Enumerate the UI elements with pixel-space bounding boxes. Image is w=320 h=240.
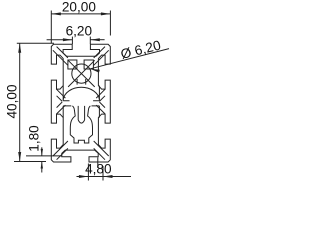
- web bottom-left corner: [53, 141, 68, 160]
- dim 40,00 line: [19, 43, 21, 161]
- web mid-left lower: [57, 102, 66, 114]
- web mid-right lower: [96, 102, 105, 114]
- web top-right corner: [94, 47, 109, 66]
- central channel lines: [78, 106, 84, 123]
- leader line for hole diameter: [90, 49, 169, 69]
- dim 1,80 extension line upper: [26, 155, 62, 157]
- web mid-right upper: [96, 89, 105, 101]
- mid wall lines: [63, 101, 99, 106]
- svg-text:4,80: 4,80: [85, 161, 112, 176]
- cavity floor connector lines: [63, 86, 99, 118]
- dim 40,00 extension line bottom: [14, 161, 46, 163]
- dim 1,80 arrow upper: [41, 149, 43, 156]
- dim 20,00 arrow left: [51, 12, 61, 15]
- dim 4,80 extension stub: [97, 157, 99, 168]
- core hole circle (top module): [72, 64, 91, 83]
- dim 20,00 line: [51, 13, 110, 15]
- groove notch left of hole: [68, 60, 77, 69]
- dim 20,00 extension line left: [50, 11, 52, 44]
- dim 1,80 arrow lower: [41, 162, 43, 169]
- web mid-left upper: [57, 89, 66, 101]
- dim 6,20 arrow right: [90, 38, 100, 41]
- dim 4,80 extension line left: [87, 164, 89, 181]
- dim 1,80 line lower: [41, 162, 43, 173]
- dim 4,80 arrow left: [79, 175, 89, 178]
- dim 4,80 arrow right: [103, 175, 113, 178]
- web top-left corner: [53, 47, 68, 66]
- dim 20,00 extension line right: [109, 11, 111, 36]
- dim 6,20 extension line left: [71, 37, 73, 44]
- dome web arc under core: [63, 87, 99, 99]
- svg-text:20,00: 20,00: [62, 0, 96, 14]
- wall stubs under core: [77, 79, 86, 85]
- dim 6,20 arrow left: [63, 38, 73, 41]
- dim 40,00 extension line top: [17, 42, 54, 44]
- X cross marking on core hole: [68, 60, 95, 87]
- svg-text:1,80: 1,80: [27, 125, 42, 152]
- dim 4,80 line: [77, 176, 132, 178]
- dim 20,00 arrow right: [101, 12, 111, 15]
- dim 1,80 line upper: [41, 147, 43, 156]
- bottom core bell outline: [70, 106, 92, 143]
- web bottom-right corner: [94, 141, 109, 160]
- groove notch right of hole: [84, 60, 93, 69]
- leader arrow: [90, 69, 100, 73]
- dim 6,20 line left tail: [47, 39, 73, 41]
- dim 4,80 extension line right: [102, 166, 104, 181]
- dim 40,00 arrow top: [18, 43, 21, 53]
- dim 40,00 arrow bottom: [18, 152, 21, 162]
- profile outer contour with T-slots: [51, 44, 110, 162]
- svg-text:40,00: 40,00: [4, 84, 19, 118]
- dim 6,20 line right tail: [90, 39, 104, 41]
- dim 6,20 extension line right: [89, 37, 91, 44]
- svg-text:6,20: 6,20: [66, 24, 93, 39]
